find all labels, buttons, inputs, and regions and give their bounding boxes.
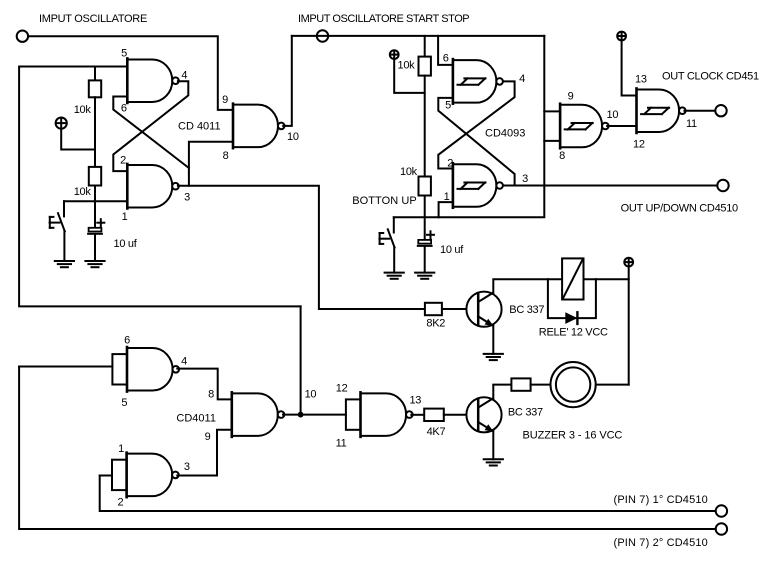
wire pin6 U2A feed xyxy=(438,36,453,65)
svg-text:1: 1 xyxy=(118,443,124,455)
wire pin1 U2B feed xyxy=(439,202,453,217)
svg-text:10: 10 xyxy=(607,109,619,121)
wire pin10 up to start-stop line xyxy=(283,36,292,126)
wire pin6 cross to pin3 node xyxy=(113,97,189,169)
resistor R6 4K7 xyxy=(424,409,444,421)
resistor R4 10k xyxy=(419,177,431,196)
svg-text:IMPUT OSCILLATORE START STOP: IMPUT OSCILLATORE START STOP xyxy=(298,13,469,25)
wire +V osc2 to R node xyxy=(394,59,425,93)
svg-text:11: 11 xyxy=(686,118,697,130)
wire start-stop top line xyxy=(292,35,545,37)
wire R3 line top xyxy=(424,36,426,57)
svg-text:10 uf: 10 uf xyxy=(114,238,138,250)
wire pin10 U2C to pin12 U2D xyxy=(607,125,636,127)
wire rail to pin9 U2C xyxy=(544,110,560,112)
svg-text:3: 3 xyxy=(184,191,190,203)
ground SW1 xyxy=(55,261,74,267)
diode D1 flyback xyxy=(565,312,577,324)
wire rail to pin8 U2C xyxy=(544,140,560,142)
terminal J1 IMPUT OSCILLATORE xyxy=(17,31,28,42)
op gate U3B CD4011 1/2->3 xyxy=(112,453,179,498)
ground Q2 xyxy=(484,459,503,465)
wire left rail pin5 node xyxy=(19,67,301,307)
svg-text:8: 8 xyxy=(223,150,229,162)
svg-text:BUZZER 3 - 16 VCC: BUZZER 3 - 16 VCC xyxy=(523,430,623,442)
wire 8K2 to Q1 base xyxy=(442,308,478,310)
svg-text:6: 6 xyxy=(443,53,449,65)
wire 4K7 to Q2 base xyxy=(444,414,478,416)
wire U3B node to pin7-1 terminal xyxy=(100,476,716,512)
wire rail2 to U3A input xyxy=(19,366,112,368)
ground SW2 xyxy=(385,273,404,279)
op gate U2C CD4093 9/8->10 xyxy=(560,104,609,149)
wire +V to R node xyxy=(61,129,95,150)
wire U3C out to U3D xyxy=(283,414,346,416)
wire R3 to R4 xyxy=(424,76,426,177)
svg-text:9: 9 xyxy=(568,91,574,103)
power +V osc2 xyxy=(390,50,399,59)
wire C2 to ground xyxy=(424,247,426,273)
svg-text:4: 4 xyxy=(181,69,187,81)
terminal J5 PIN7 1 xyxy=(716,505,727,516)
wire U3B out to pin9 U3C xyxy=(177,430,232,476)
wire C1 to ground xyxy=(94,235,96,261)
svg-text:12: 12 xyxy=(633,139,645,151)
svg-text:13: 13 xyxy=(635,74,647,86)
resistor R3 10k xyxy=(419,57,431,76)
op gate U1A CD4011 5/6->4 xyxy=(127,58,179,102)
svg-text:8: 8 xyxy=(559,150,565,162)
junction node 10 xyxy=(298,412,304,418)
svg-text:BC 337: BC 337 xyxy=(508,407,543,419)
wire +V relay down to buzzer line xyxy=(628,267,630,385)
svg-text:IMPUT OSCILLATORE: IMPUT OSCILLATORE xyxy=(39,13,147,25)
wire Q1 collector to relay line xyxy=(493,279,628,293)
svg-text:4: 4 xyxy=(519,73,525,85)
svg-text:9: 9 xyxy=(205,431,211,443)
wire pin11 to clock terminal xyxy=(684,110,715,112)
svg-text:RELE' 12 VCC: RELE' 12 VCC xyxy=(539,327,608,339)
svg-text:CD4093: CD4093 xyxy=(485,128,525,140)
wire Q2 collector to buzzer res xyxy=(493,385,511,399)
relay K1 coil xyxy=(562,258,583,299)
buzzer BZ1 xyxy=(551,362,596,407)
terminal J6 PIN7 2 xyxy=(716,523,727,534)
svg-text:CD4011: CD4011 xyxy=(176,413,216,425)
svg-text:OUT UP/DOWN CD4510: OUT UP/DOWN CD4510 xyxy=(621,203,738,215)
wire junction vertical pin8 feed xyxy=(189,142,233,186)
resistor R7 buzzer xyxy=(511,378,530,390)
transistor Q2 BC337 xyxy=(466,397,501,432)
op gate U2A CD4093 6/5->4 xyxy=(453,59,503,104)
wire pin4 cross to pin2 xyxy=(438,81,514,168)
wire diode branch xyxy=(548,279,596,318)
svg-text:BC 337: BC 337 xyxy=(509,304,544,316)
svg-text:10k: 10k xyxy=(400,166,418,178)
power +V osc1 xyxy=(56,118,67,129)
terminal J4 OUT CLOCK xyxy=(715,105,726,116)
svg-text:8K2: 8K2 xyxy=(426,317,445,329)
svg-text:3: 3 xyxy=(522,173,528,185)
svg-text:10 uf: 10 uf xyxy=(440,244,464,256)
wire R7 to buzzer xyxy=(531,384,551,386)
svg-text:6: 6 xyxy=(121,102,127,114)
capacitor C2 10uf xyxy=(418,231,434,246)
op gate U2B CD4093 2/1->3 xyxy=(453,163,503,208)
transistor Q1 BC337 xyxy=(466,292,501,327)
wire junction vertical to node 10 xyxy=(300,306,302,414)
wire pin4 cross to pin2 xyxy=(113,81,188,171)
svg-text:12: 12 xyxy=(336,382,348,394)
svg-text:6: 6 xyxy=(124,335,130,347)
svg-text:(PIN 7) 1° CD4510: (PIN 7) 1° CD4510 xyxy=(614,494,708,506)
switch SW1 pushbutton xyxy=(50,201,65,231)
wire pin3 output to 8K2 node xyxy=(178,186,425,309)
switch SW2 BOTTON UP xyxy=(379,217,394,247)
svg-text:10: 10 xyxy=(305,389,317,401)
terminal J3 OUT UP/DOWN xyxy=(717,180,728,191)
svg-text:(PIN 7) 2° CD4510: (PIN 7) 2° CD4510 xyxy=(614,537,708,549)
op gate U3A CD4011 6/5->4 xyxy=(112,347,179,392)
wire +V to pin13 xyxy=(622,40,637,95)
wire Q1 emitter to ground xyxy=(492,326,494,354)
svg-text:3: 3 xyxy=(184,461,190,473)
svg-text:CD 4011: CD 4011 xyxy=(178,120,221,132)
svg-text:4: 4 xyxy=(181,355,187,367)
wire J1 to CD4011 pin9 xyxy=(28,36,233,110)
wire SW2 to ground xyxy=(393,247,395,272)
svg-text:OUT CLOCK CD451: OUT CLOCK CD451 xyxy=(662,70,759,82)
wire R1 bottom to C1 xyxy=(94,97,96,228)
svg-text:13: 13 xyxy=(409,395,421,407)
svg-text:10: 10 xyxy=(287,131,299,143)
resistor R1 10k xyxy=(89,80,101,97)
op gate U3D CD4011 12/11->13 xyxy=(346,392,413,437)
terminal J2 start stop xyxy=(317,30,328,41)
wire U3B input feed xyxy=(100,475,112,477)
svg-text:5: 5 xyxy=(121,47,127,59)
ground Q1 xyxy=(484,354,503,360)
svg-text:5: 5 xyxy=(121,397,127,409)
power +V relay xyxy=(624,258,633,267)
svg-text:11: 11 xyxy=(336,437,347,449)
capacitor C1 10uf xyxy=(88,219,104,234)
svg-text:10k: 10k xyxy=(398,60,416,72)
wire U3A out to pin8 U3C xyxy=(177,369,232,400)
svg-text:5: 5 xyxy=(445,100,451,112)
svg-text:2: 2 xyxy=(120,154,126,166)
wire rail2 to pin7-2 terminal xyxy=(19,367,716,530)
op gate U2D CD4093 13/12->11 xyxy=(637,88,686,133)
power +V clock gate xyxy=(617,32,626,41)
op gate U3C CD4011 8/9->10 xyxy=(232,392,285,437)
svg-text:1: 1 xyxy=(122,211,128,223)
wire pin5 cross to pin3 node xyxy=(438,98,514,186)
ground C2 xyxy=(415,273,434,279)
svg-text:8: 8 xyxy=(208,388,214,400)
wire SW1 to ground xyxy=(63,231,65,261)
svg-text:2: 2 xyxy=(117,497,123,509)
svg-text:BOTTON UP: BOTTON UP xyxy=(352,195,416,207)
resistor R5 8K2 xyxy=(425,303,442,315)
wire SW1 node to pin1 xyxy=(64,200,127,202)
wire right rail start-stop xyxy=(394,36,545,217)
svg-text:10k: 10k xyxy=(74,104,92,116)
wire R1 top xyxy=(94,67,96,81)
svg-text:9: 9 xyxy=(222,94,228,106)
resistor R2 10k xyxy=(89,167,101,186)
wire R4 to C2 xyxy=(424,196,426,240)
wire U3D out to 4K7 xyxy=(411,414,424,416)
wire Q2 emitter to ground xyxy=(492,432,494,460)
op gate U1C CD4011 9/8->10 xyxy=(233,104,285,148)
wire buzzer to +V line xyxy=(596,384,629,386)
ground C1 xyxy=(85,261,104,267)
svg-text:4K7: 4K7 xyxy=(427,426,446,438)
op gate U1B CD4011 2/1->3 xyxy=(127,164,179,209)
wire pin3 out up/down line xyxy=(504,185,717,187)
svg-text:10k: 10k xyxy=(74,186,92,198)
